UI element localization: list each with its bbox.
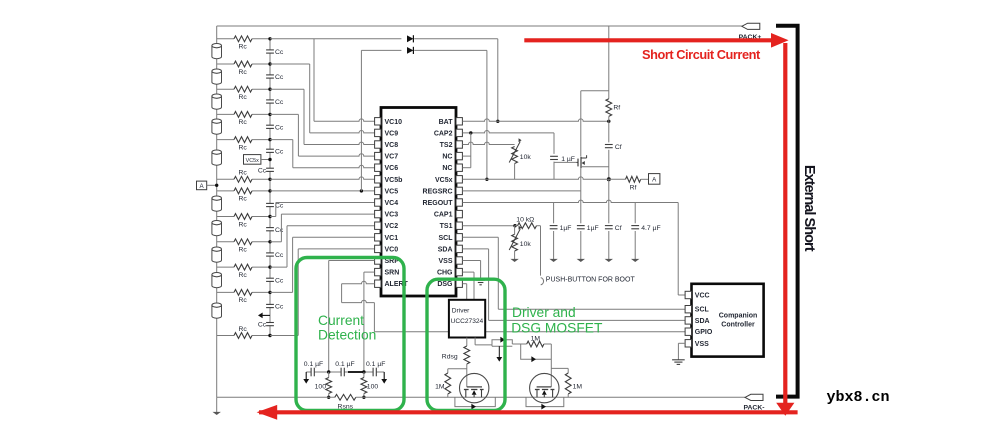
svg-text:0.1 µF: 0.1 µF bbox=[304, 361, 323, 368]
svg-text:Cc: Cc bbox=[275, 304, 284, 311]
wire SRN net bbox=[364, 271, 375, 273]
svg-text:NC: NC bbox=[442, 165, 452, 172]
capacitor Cc bbox=[266, 49, 274, 51]
ground symbol at VSS bbox=[476, 279, 485, 281]
battery cell 9 bbox=[212, 273, 222, 288]
wire Rf to BAT row bbox=[608, 116, 610, 121]
wire ALERT to GPIO bbox=[342, 281, 375, 283]
svg-text:DSG: DSG bbox=[437, 281, 453, 288]
wire DSG to driver input bbox=[462, 283, 466, 285]
wire tap row VC5 bbox=[217, 190, 234, 192]
wire VC5x label to column bbox=[261, 159, 270, 161]
svg-text:SDA: SDA bbox=[695, 318, 710, 325]
svg-text:Rc: Rc bbox=[239, 326, 248, 333]
svg-text:VC5x: VC5x bbox=[246, 158, 259, 164]
svg-text:SCL: SCL bbox=[439, 235, 454, 242]
svg-text:CAP2: CAP2 bbox=[434, 130, 453, 137]
wire VC2 tap to pin bbox=[270, 266, 287, 268]
svg-text:Cc: Cc bbox=[258, 322, 267, 329]
resistor Rf (BAT filter) bbox=[606, 99, 612, 117]
pin VC4 (left stub) bbox=[375, 199, 381, 206]
svg-text:VC0: VC0 bbox=[385, 246, 399, 253]
wire VC10 tap to BAT diode bbox=[314, 38, 401, 40]
svg-text:Cc: Cc bbox=[275, 49, 284, 56]
wire top rail to Rf bbox=[608, 26, 610, 99]
wire CAP2 1uF cap drop bbox=[553, 133, 555, 154]
ground arrow under 1µF bbox=[549, 259, 557, 262]
svg-text:Rc: Rc bbox=[239, 297, 248, 304]
pin REGSRC (right stub) bbox=[456, 187, 462, 194]
pin VC1 (left stub) bbox=[375, 234, 381, 241]
svg-text:Rc: Rc bbox=[239, 170, 248, 177]
node rail SRN bbox=[362, 396, 365, 399]
pin VSS (right stub) bbox=[456, 257, 462, 264]
node BAT/Rf junction bbox=[607, 120, 610, 123]
pin CAP2 (right stub) bbox=[456, 129, 462, 136]
node VC3 tap junction bbox=[268, 240, 271, 243]
pin VC8 (left stub) bbox=[375, 141, 381, 148]
wire 10k to ground bbox=[514, 251, 516, 259]
capacitor Cc bbox=[266, 124, 274, 126]
battery cell 5 bbox=[212, 150, 222, 165]
wire REGOUT to companion VCC bbox=[677, 203, 679, 296]
svg-text:Cc: Cc bbox=[275, 99, 284, 106]
wire companion VSS to ground bbox=[678, 342, 685, 344]
node VC5x/Cf junction bbox=[607, 177, 611, 181]
current arrow M2 loop bbox=[541, 404, 546, 410]
wire VC5 row to pin bbox=[270, 190, 375, 192]
wire VC1 tap to pin bbox=[270, 291, 293, 293]
pin SRP (left stub) bbox=[375, 257, 381, 264]
resistor Rc (VC7 filter) bbox=[234, 112, 252, 118]
resistor Rc (VC0 filter) bbox=[234, 333, 252, 339]
pin GPIO (companion stub) bbox=[685, 328, 691, 335]
ground symbol at companion VSS bbox=[672, 359, 685, 361]
node VC7 tap junction bbox=[268, 113, 271, 116]
diode D1 (tap to BAT) bbox=[407, 35, 413, 42]
capacitor Cc bbox=[266, 227, 274, 229]
node A label box (right) bbox=[649, 174, 660, 185]
wire VSS to ground bbox=[462, 260, 480, 262]
wire REGOUT row bbox=[462, 200, 678, 202]
svg-text:Rc: Rc bbox=[239, 196, 248, 203]
svg-text:VC6: VC6 bbox=[385, 165, 399, 172]
svg-text:VC3: VC3 bbox=[385, 212, 399, 219]
short circuit current path (red) bbox=[524, 38, 777, 42]
wire tap row VC2 bbox=[217, 266, 234, 268]
pin VC10 (left stub) bbox=[375, 118, 381, 125]
svg-text:10k: 10k bbox=[520, 154, 532, 161]
svg-text:VC4: VC4 bbox=[385, 200, 399, 207]
capacitor Cc bbox=[266, 277, 274, 279]
svg-text:REGSRC: REGSRC bbox=[423, 188, 453, 195]
node VC1 tap junction bbox=[268, 291, 271, 294]
svg-text:Current: Current bbox=[318, 313, 364, 328]
svg-text:Rc: Rc bbox=[239, 119, 248, 126]
svg-text:VC7: VC7 bbox=[385, 154, 399, 161]
resistor Rc (VC4 filter) bbox=[234, 214, 252, 220]
battery cell 1 bbox=[212, 44, 222, 59]
svg-text:Cc: Cc bbox=[275, 148, 284, 155]
capacitor Cc bbox=[266, 303, 274, 305]
ground arrow under 10k bbox=[510, 259, 518, 262]
wire tap row VC10 bbox=[217, 38, 234, 40]
svg-text:Cc: Cc bbox=[275, 203, 284, 210]
wire tap row VC5b bbox=[217, 178, 234, 180]
wire VC5b row to pin bbox=[270, 177, 375, 179]
battery cell 6 bbox=[212, 196, 222, 211]
capacitor Cf bbox=[605, 225, 613, 227]
IC U1 battery monitor bbox=[381, 108, 456, 297]
capacitor Cf (upper) bbox=[605, 144, 613, 146]
node VC6 tap junction bbox=[268, 138, 271, 141]
wire Cf to VC5x node bbox=[608, 150, 610, 180]
svg-text:10k: 10k bbox=[520, 241, 532, 248]
annotation box Driver and DSG MOSFET bbox=[427, 279, 505, 410]
resistor 1M (M2 gate-source) bbox=[551, 367, 568, 369]
pin DSG (right stub) bbox=[456, 280, 462, 287]
wire NC pin 1 stub bbox=[462, 155, 470, 157]
wire VC3 tap to pin bbox=[270, 241, 281, 243]
svg-text:VC8: VC8 bbox=[385, 142, 399, 149]
svg-text:Rc: Rc bbox=[239, 221, 248, 228]
svg-text:Rc: Rc bbox=[239, 272, 248, 279]
connector PACK- bbox=[745, 394, 763, 400]
pin SDA (right stub) bbox=[456, 245, 462, 252]
wire FET source to REGSRC row bbox=[580, 168, 582, 191]
battery cell 3 bbox=[212, 94, 222, 109]
node A label box (left) bbox=[197, 181, 207, 190]
svg-text:VC5: VC5 bbox=[385, 188, 399, 195]
resistor 100 (SRN) bbox=[363, 372, 365, 378]
pin SCL (right stub) bbox=[456, 234, 462, 241]
pin REGOUT (right stub) bbox=[456, 199, 462, 206]
battery cell 2 bbox=[212, 69, 222, 84]
wire cap Cf drop bbox=[608, 179, 610, 223]
wire tap row VC8 bbox=[217, 88, 234, 90]
wire D2 cathode down to VC5x row bbox=[486, 50, 488, 179]
pin VC7 (left stub) bbox=[375, 152, 381, 159]
wire VC0 tap to pin bbox=[270, 335, 298, 337]
svg-text:SCL: SCL bbox=[695, 307, 710, 314]
wire VC6 tap to pin bbox=[270, 139, 293, 141]
svg-text:Rf: Rf bbox=[613, 105, 620, 112]
svg-text:CAP1: CAP1 bbox=[434, 212, 453, 219]
svg-text:Cc: Cc bbox=[275, 124, 284, 131]
svg-text:Cc: Cc bbox=[275, 277, 284, 284]
pin VC5x (right stub) bbox=[456, 176, 462, 183]
connector PACK+ bbox=[742, 23, 760, 29]
node VC2 tap junction bbox=[268, 265, 271, 268]
wire M2 gate feed bbox=[550, 344, 552, 387]
node SRP sense bbox=[327, 370, 330, 373]
wire Rf2 to A box bbox=[641, 178, 649, 180]
wire cap 4.7 µF drop bbox=[634, 203, 636, 224]
svg-text:PUSH-BUTTON FOR BOOT: PUSH-BUTTON FOR BOOT bbox=[546, 276, 636, 283]
wire cap 1µF drop bbox=[553, 203, 555, 224]
pin VC5b (left stub) bbox=[375, 176, 381, 183]
svg-text:GPIO: GPIO bbox=[695, 329, 713, 336]
node VC4 tap junction bbox=[268, 215, 271, 218]
pin VSS (companion stub) bbox=[685, 340, 691, 347]
capacitor 1µF bbox=[550, 225, 558, 227]
svg-text:Rc: Rc bbox=[239, 44, 248, 51]
pin BAT (right stub) bbox=[456, 118, 462, 125]
wire VC5x row bbox=[462, 177, 608, 179]
svg-text:Rdsg: Rdsg bbox=[442, 353, 458, 360]
wire tap row VC4 bbox=[217, 216, 234, 218]
svg-text:Cc: Cc bbox=[275, 74, 284, 81]
pin VC9 (left stub) bbox=[375, 129, 381, 136]
svg-text:Driver: Driver bbox=[452, 307, 470, 314]
svg-text:Cc: Cc bbox=[258, 167, 267, 174]
svg-text:1M: 1M bbox=[531, 336, 541, 343]
svg-text:0.1 µF: 0.1 µF bbox=[335, 361, 354, 368]
wire VC5 to VC5x diode riser bbox=[360, 50, 362, 191]
resistor Rsns shunt bbox=[335, 394, 356, 400]
wire VC9 tap to pin bbox=[270, 63, 310, 65]
ground arrow under 1µF bbox=[577, 259, 585, 262]
resistor Rc (VC10 filter) bbox=[234, 36, 252, 42]
resistor Rc (VC6 filter) bbox=[234, 137, 252, 143]
capacitor Cc bbox=[266, 74, 274, 76]
svg-text:VC10: VC10 bbox=[385, 119, 403, 126]
battery cell 8 bbox=[212, 247, 222, 262]
pin NC (right stub) bbox=[456, 152, 462, 159]
svg-text:Rc: Rc bbox=[239, 69, 248, 76]
wire driver OUTB to gate network bbox=[474, 338, 476, 345]
wire 1uF to VC5x row bbox=[553, 162, 555, 180]
thermistor 10k (TS2) bbox=[512, 147, 518, 164]
wire 10k to VC5x row bbox=[514, 164, 516, 180]
wire Cc coupling column bbox=[269, 39, 271, 50]
wire VC8 tap to pin bbox=[270, 88, 304, 90]
svg-text:VC1: VC1 bbox=[385, 235, 399, 242]
battery cell 4 bbox=[212, 119, 222, 134]
pin ALERT (left stub) bbox=[375, 280, 381, 287]
node VC9 tap junction bbox=[268, 62, 271, 65]
wire TS1 row bbox=[462, 225, 515, 227]
wire CHG to driver input bbox=[462, 271, 474, 273]
wire battery stack bus bbox=[216, 26, 218, 397]
node VC5b tap junction bbox=[268, 178, 271, 181]
pin TS1 (right stub) bbox=[456, 222, 462, 229]
resistor Rc (VC5b filter) bbox=[234, 176, 252, 182]
resistor Rc (VC3 filter) bbox=[234, 239, 252, 245]
svg-text:VC5x: VC5x bbox=[435, 177, 453, 184]
svg-text:VCC: VCC bbox=[695, 293, 710, 300]
svg-text:VSS: VSS bbox=[695, 341, 709, 348]
battery cell 7 bbox=[212, 221, 222, 236]
svg-text:BAT: BAT bbox=[439, 119, 454, 126]
svg-text:Rc: Rc bbox=[239, 144, 248, 151]
current arrow right of sense caps bbox=[383, 372, 385, 379]
node TS1 junction bbox=[513, 224, 516, 227]
svg-text:100: 100 bbox=[367, 383, 379, 390]
svg-text:Detection: Detection bbox=[318, 327, 376, 342]
current arrow left of sense caps bbox=[305, 372, 307, 379]
wire FET gate to 1uF node bbox=[554, 161, 576, 163]
wire tap row VC9 bbox=[217, 63, 234, 65]
svg-text:100: 100 bbox=[315, 383, 327, 390]
resistor Rf (VC5x) bbox=[626, 176, 641, 182]
wire A box to bus bbox=[207, 184, 217, 186]
svg-text:TS1: TS1 bbox=[440, 223, 453, 230]
resistor Rdsg gate resistor bbox=[464, 346, 470, 364]
wire top rail PACK+ net bbox=[217, 25, 742, 27]
wire BAT row bbox=[462, 119, 608, 121]
pin VC2 (left stub) bbox=[375, 222, 381, 229]
wire REGSRC row bbox=[462, 190, 580, 192]
capacitor 4.7 µF bbox=[631, 225, 639, 227]
wire driver OUTA to Rdsg bbox=[466, 338, 468, 347]
svg-text:Driver and: Driver and bbox=[512, 305, 576, 320]
svg-text:Companion: Companion bbox=[719, 313, 758, 320]
svg-text:0.1 µF: 0.1 µF bbox=[366, 361, 385, 368]
wire current loop under M1 bbox=[455, 397, 495, 406]
svg-text:1µF: 1µF bbox=[587, 225, 599, 232]
current arrow down from loop A bbox=[498, 346, 500, 358]
pin VC5 (left stub) bbox=[375, 187, 381, 194]
wire SCL net bbox=[462, 236, 498, 238]
svg-text:VC9: VC9 bbox=[385, 130, 399, 137]
wire current loop under M2 bbox=[526, 397, 564, 406]
svg-text:4.7 µF: 4.7 µF bbox=[641, 225, 660, 232]
svg-text:TS2: TS2 bbox=[440, 142, 453, 149]
battery cell 10 bbox=[212, 303, 222, 318]
node VC0 tap junction bbox=[268, 334, 271, 337]
resistor Rc (VC8 filter) bbox=[234, 86, 252, 92]
svg-text:Cf: Cf bbox=[615, 144, 622, 151]
wire BAT node to Cf bbox=[608, 121, 610, 142]
capacitor Cc bbox=[266, 252, 274, 254]
resistor 1M (M1 gate-source) bbox=[448, 368, 467, 370]
svg-text:Rc: Rc bbox=[239, 94, 248, 101]
capacitor Cc bbox=[266, 322, 274, 324]
wire TS2 row bbox=[462, 142, 514, 144]
resistor Rc (VC5 filter) bbox=[234, 188, 252, 194]
wire D1 cathode down to BAT row bbox=[497, 39, 499, 122]
svg-text:Controller: Controller bbox=[721, 322, 755, 329]
wire VC7 tap to pin bbox=[270, 113, 298, 115]
capacitor Cc bbox=[266, 202, 274, 204]
wire sense cap row bbox=[306, 371, 311, 373]
node VC8 tap junction bbox=[268, 88, 271, 91]
pin SRN (left stub) bbox=[375, 268, 381, 275]
transistor Q3 DSG MOSFET M2 bbox=[530, 373, 559, 402]
capacitor 1µF bbox=[577, 225, 585, 227]
svg-text:Cc: Cc bbox=[275, 252, 284, 259]
IC U3 companion controller bbox=[692, 284, 764, 357]
wire tap row VC7 bbox=[217, 113, 234, 115]
thermistor 10k (TS1) bbox=[514, 225, 516, 227]
node rail SRP bbox=[327, 396, 330, 399]
svg-text:UCC27324: UCC27324 bbox=[451, 318, 484, 325]
ground arrow under 4.7 µF bbox=[631, 259, 639, 262]
driver U2 UCC27324 box bbox=[449, 300, 485, 338]
svg-text:1M: 1M bbox=[573, 384, 583, 391]
pin VC3 (left stub) bbox=[375, 210, 381, 217]
capacitor Cc bbox=[266, 167, 274, 169]
svg-text:Cf: Cf bbox=[615, 225, 622, 232]
ground arrow under Cf bbox=[605, 259, 613, 262]
wire NC pin 2 stub bbox=[462, 167, 470, 169]
svg-text:SRN: SRN bbox=[385, 270, 400, 277]
capacitor 0.1uF (left) bbox=[310, 368, 312, 377]
wire loop A to 1M bbox=[512, 343, 526, 345]
wire NC tie vertical bbox=[470, 133, 472, 168]
wire CAP2 row to NC tie and 1uF bbox=[462, 131, 554, 133]
transistor Q1 regulator pass FET bbox=[577, 159, 579, 167]
wire VC4 tap to pin bbox=[270, 216, 276, 218]
wire bottom rail (left) bbox=[217, 396, 335, 398]
current arrow M1 loop bbox=[471, 404, 476, 410]
pin CAP1 (right stub) bbox=[456, 210, 462, 217]
wire VC10 tap to pin bbox=[270, 38, 314, 40]
svg-text:VC5b: VC5b bbox=[385, 177, 403, 184]
current arrow into bottom Cc bbox=[262, 314, 271, 316]
resistor Rc (VC2 filter) bbox=[234, 264, 252, 270]
capacitor 1uF (CAP2) bbox=[550, 155, 558, 157]
wire bottom rail (right) bbox=[356, 396, 745, 398]
capacitor Cc bbox=[266, 148, 274, 150]
resistor 10 kOhm (boot) bbox=[515, 225, 518, 227]
pin SCL (companion stub) bbox=[685, 306, 691, 313]
svg-text:1µF: 1µF bbox=[560, 225, 572, 232]
pin TS2 (right stub) bbox=[456, 141, 462, 148]
pin VCC (companion stub) bbox=[685, 291, 691, 298]
external short loop line bbox=[776, 26, 798, 397]
svg-text:ybx8.cn: ybx8.cn bbox=[827, 389, 890, 406]
wire tap row VC3 bbox=[217, 241, 234, 243]
svg-text:VC2: VC2 bbox=[385, 223, 399, 230]
capacitor Cc bbox=[266, 99, 274, 101]
pin CHG (right stub) bbox=[456, 268, 462, 275]
node VC5 tap junction bbox=[268, 189, 271, 192]
svg-text:10 kΩ: 10 kΩ bbox=[516, 217, 534, 224]
resistor Rc (VC1 filter) bbox=[234, 290, 252, 296]
node VC5x label box (left) bbox=[244, 155, 261, 165]
node VC5/diode junction bbox=[360, 189, 363, 192]
node SRN sense bbox=[362, 370, 365, 373]
svg-text:External Short: External Short bbox=[801, 165, 817, 252]
wire SDA net bbox=[462, 248, 488, 250]
node VC10 tap junction bbox=[268, 37, 271, 40]
svg-text:SDA: SDA bbox=[438, 246, 453, 253]
wire regulator FET drain chain bbox=[580, 91, 582, 157]
wire 10kOhm to push-button bbox=[537, 225, 541, 227]
pin VC0 (left stub) bbox=[375, 245, 381, 252]
wire tap row VC1 bbox=[217, 291, 234, 293]
transistor Q2 DSG MOSFET M1 bbox=[460, 373, 489, 402]
wire gate loop A with arrow bbox=[492, 340, 512, 345]
svg-text:REGOUT: REGOUT bbox=[423, 200, 454, 207]
wire bypass loop B with arrow bbox=[521, 344, 552, 359]
svg-text:NC: NC bbox=[442, 154, 452, 161]
ground arrow below battery negative bbox=[216, 397, 218, 412]
wire tap row VC6 bbox=[217, 139, 234, 141]
svg-text:Rf: Rf bbox=[630, 185, 637, 192]
capacitor 0.1uF (right) bbox=[372, 368, 374, 377]
svg-text:Cc: Cc bbox=[275, 227, 284, 234]
annotation box Current Detection bbox=[296, 258, 404, 411]
pin NC (right stub) bbox=[456, 164, 462, 171]
wire SRP net bbox=[329, 260, 375, 262]
svg-text:Short Circuit Current: Short Circuit Current bbox=[642, 47, 761, 62]
wire Rdsg to M1 gate bbox=[466, 364, 468, 387]
svg-text:Rc: Rc bbox=[239, 247, 248, 254]
svg-text:DSG MOSFET: DSG MOSFET bbox=[511, 320, 603, 335]
